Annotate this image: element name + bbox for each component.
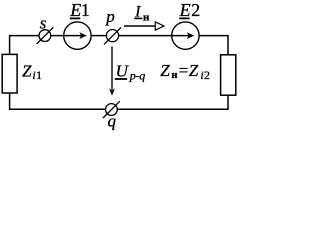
node p bbox=[104, 7, 121, 45]
svg-text:E: E bbox=[179, 0, 191, 20]
wire Zi1 bottom to bottom rail bbox=[9, 93, 11, 110]
resistor Zi1 bbox=[2, 54, 42, 93]
svg-text:2: 2 bbox=[204, 68, 210, 82]
svg-text:E: E bbox=[69, 0, 81, 20]
wire E2 right edge to corner and down to Zi2 bbox=[199, 36, 228, 55]
svg-text:=: = bbox=[179, 61, 189, 80]
label Up-q bbox=[115, 61, 146, 82]
wire node s to E1 bbox=[51, 35, 64, 37]
wire bottom rail left of node q bbox=[10, 108, 106, 110]
node q bbox=[103, 101, 120, 130]
label E1 bbox=[69, 0, 90, 20]
wire Zi2 bottom to bottom rail bbox=[227, 95, 229, 109]
voltage arrow Up-q bbox=[109, 47, 115, 96]
svg-text:p: p bbox=[105, 7, 115, 26]
label Zн = Zi2 bbox=[160, 61, 210, 82]
resistor Zi2 (load) bbox=[221, 55, 236, 95]
svg-text:н: н bbox=[171, 70, 177, 81]
wire bottom rail right of node q bbox=[117, 108, 228, 110]
current arrow Iн bbox=[124, 22, 164, 30]
svg-text:Z: Z bbox=[22, 61, 32, 80]
source E1 bbox=[64, 22, 91, 49]
svg-text:н: н bbox=[143, 11, 150, 23]
node s bbox=[37, 13, 54, 44]
wire E1 right edge to node p bbox=[91, 35, 106, 37]
svg-text:U: U bbox=[116, 61, 130, 80]
source E2 bbox=[172, 22, 199, 49]
svg-text:s: s bbox=[40, 13, 47, 32]
svg-text:1: 1 bbox=[81, 0, 90, 20]
svg-text:2: 2 bbox=[191, 0, 200, 20]
wire top-left from Zi1 up and right to node s bbox=[10, 36, 39, 55]
svg-text:q: q bbox=[139, 68, 145, 82]
svg-text:Z: Z bbox=[160, 61, 170, 80]
svg-text:Z: Z bbox=[189, 61, 199, 80]
svg-text:q: q bbox=[108, 112, 117, 131]
label Iн bbox=[134, 4, 150, 24]
label E2 bbox=[179, 0, 201, 20]
wire node p to E2 bbox=[119, 35, 172, 37]
svg-text:1: 1 bbox=[36, 68, 42, 82]
